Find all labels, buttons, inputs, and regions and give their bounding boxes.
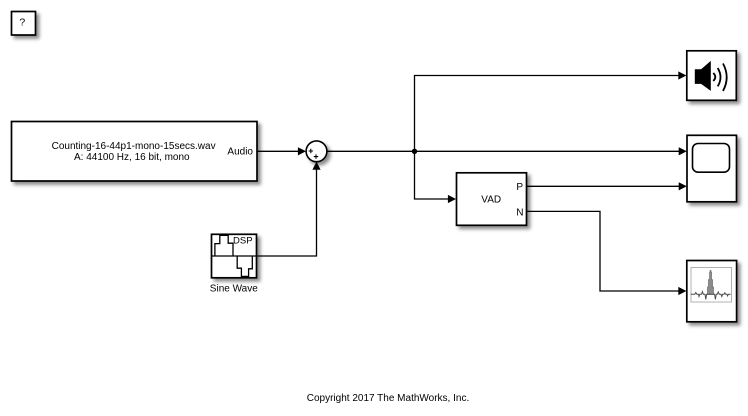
label: Sine Wave [210,284,258,295]
svg-text:Audio: Audio [227,147,253,158]
block: Spectrum Analyzer [687,261,737,322]
svg-text:Counting-16-44p1-mono-15secs.w: Counting-16-44p1-mono-15secs.wav [52,141,216,152]
wire: junction down to VAD input [415,151,457,203]
wire: sine wave to sum (bottom input) [257,162,321,256]
sum block (++) [306,141,327,162]
svg-text:A: 44100 Hz, 16 bit, mono: A: 44100 Hz, 16 bit, mono [74,152,190,163]
block: Time Scope [687,135,737,202]
help block ? [12,12,36,36]
wire: VAD N output to spectrum analyzer [527,211,687,295]
block: audio file reader (From Multimedia File) [12,122,258,182]
block: Audio Device Writer (speaker) [687,51,737,101]
port label Audio [227,147,253,158]
svg-text:P: P [516,182,523,193]
svg-text:Copyright 2017 The MathWorks,: Copyright 2017 The MathWorks, Inc. [307,393,470,404]
junction node [412,149,417,154]
block: Sine Wave (DSP) [212,234,257,277]
svg-text:N: N [516,208,523,219]
block: VAD [457,173,527,226]
port label P [516,182,523,193]
wire: sum output to scope input 1 [327,147,687,155]
svg-text:?: ? [19,17,25,29]
wire: VAD P output to scope input 2 [527,182,687,190]
wire: audio reader output to sum [257,147,306,155]
svg-text:DSP: DSP [233,236,253,247]
port label N [516,208,523,219]
wire: junction up to speaker [415,71,687,151]
label: copyright [307,393,470,404]
svg-text:VAD: VAD [481,194,501,205]
svg-text:Sine Wave: Sine Wave [210,284,258,295]
